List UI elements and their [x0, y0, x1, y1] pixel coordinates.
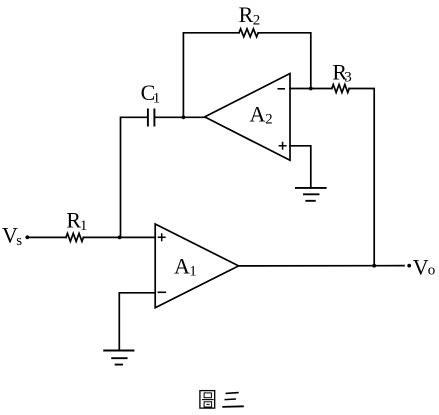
pin - of A1	[158, 291, 167, 293]
svg-text:R: R	[239, 2, 254, 27]
caption glyph 圖	[200, 391, 215, 409]
ground (A2)	[296, 188, 326, 201]
wire from R1 node up to C1	[121, 117, 148, 237]
svg-text:s: s	[16, 233, 22, 249]
node junction output/R3	[372, 264, 376, 268]
pin + of A1	[158, 233, 166, 241]
terminal Vs	[25, 235, 29, 239]
op-amp A2 (pointing left)	[205, 74, 290, 161]
capacitor C1	[148, 109, 155, 125]
svg-text:A: A	[250, 102, 266, 127]
wire Vs to R1	[27, 236, 66, 238]
wire R2 left vertical from C1 node up	[183, 33, 239, 118]
svg-text:V: V	[413, 254, 429, 279]
node junction R2/A2 inverting	[309, 87, 313, 91]
terminal Vo	[407, 264, 411, 268]
svg-text:1: 1	[153, 91, 161, 107]
svg-text:1: 1	[189, 264, 197, 280]
op-amp A1 (pointing right)	[155, 224, 238, 308]
node junction C1/R2/A2 output	[182, 115, 186, 119]
ground (A1)	[104, 351, 133, 365]
wire A2 non-inverting input to ground	[290, 146, 311, 188]
caption glyph 三	[226, 392, 239, 395]
wire C1 to A2 output apex	[155, 116, 205, 118]
wire A2 inverting input to R3	[290, 88, 332, 90]
pin + of A2	[279, 142, 287, 150]
resistor R1	[66, 233, 83, 241]
pin - of A2	[278, 88, 286, 90]
wire A1 output to Vo	[239, 265, 404, 267]
resistor R3	[332, 85, 349, 93]
svg-text:1: 1	[80, 218, 88, 234]
svg-text:o: o	[428, 263, 436, 279]
wire R1 to A1 non-inverting input	[83, 236, 155, 238]
wire A1 inverting input to ground	[119, 293, 155, 351]
svg-text:2: 2	[253, 13, 261, 29]
svg-text:2: 2	[265, 112, 273, 128]
wire R2 right to A2 inverting input	[258, 33, 311, 89]
wire R3 to right vertical	[349, 89, 374, 266]
node junction R1/C1	[118, 236, 122, 240]
svg-text:A: A	[174, 253, 190, 278]
resistor R2	[239, 29, 258, 37]
svg-text:3: 3	[344, 70, 352, 86]
